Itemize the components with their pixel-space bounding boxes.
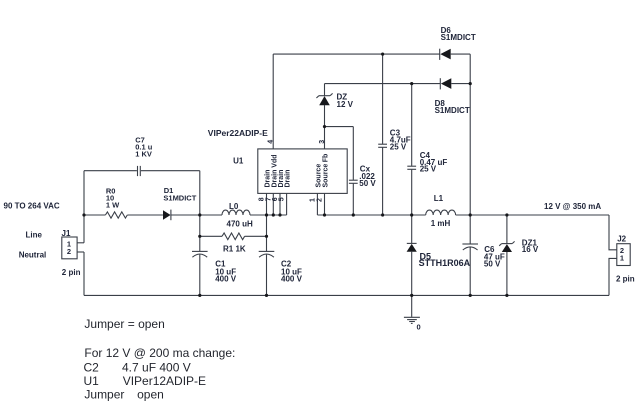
wire C3 upper bbox=[382, 54, 384, 144]
capacitor C6 bbox=[462, 244, 478, 250]
junction feedback node bbox=[323, 125, 326, 128]
wire Vdd second rail bbox=[325, 83, 441, 85]
svg-text:S1MDICT: S1MDICT bbox=[435, 106, 470, 115]
svg-text:Line: Line bbox=[26, 231, 43, 240]
svg-text:12 V: 12 V bbox=[337, 100, 354, 109]
wire R1 left segment bbox=[200, 235, 222, 237]
label C4 value bbox=[420, 151, 448, 174]
wire feedback node to Cx bbox=[325, 126, 354, 128]
svg-text:2: 2 bbox=[317, 198, 324, 202]
wire DZ1 to bottom rail bbox=[506, 252, 508, 295]
label C6 value bbox=[484, 245, 505, 269]
svg-text:1: 1 bbox=[309, 198, 316, 202]
capacitor C4 bbox=[407, 166, 416, 169]
wire R0 to D1 bbox=[127, 214, 163, 216]
svg-text:25 V: 25 V bbox=[420, 165, 437, 174]
wire neutral drop bbox=[83, 252, 85, 295]
svg-text:470 uH: 470 uH bbox=[227, 219, 253, 228]
wire C4 lower bbox=[411, 170, 413, 215]
wire L0 to drain pins bbox=[250, 214, 287, 216]
svg-text:J1: J1 bbox=[62, 229, 71, 238]
wire drain bus pin 8 / C2 branch bbox=[266, 193, 268, 251]
svg-text:Vdd: Vdd bbox=[271, 154, 278, 167]
label C7 value bbox=[135, 136, 153, 159]
capacitor Cx bbox=[349, 180, 358, 183]
svg-text:0: 0 bbox=[417, 323, 421, 332]
svg-text:2: 2 bbox=[67, 247, 71, 256]
note C2 change bbox=[84, 360, 191, 374]
svg-text:L0: L0 bbox=[229, 202, 239, 211]
junction DZ1 bottom bbox=[505, 294, 508, 297]
junction C3 top bbox=[381, 53, 384, 56]
svg-text:C2: C2 bbox=[84, 360, 100, 374]
junction pin 6 bbox=[278, 213, 281, 216]
junction Cx bottom bbox=[352, 213, 355, 216]
connector J1 bbox=[62, 237, 77, 259]
wire pin 4 Vdd riser bbox=[272, 54, 274, 149]
wire DZ top stub bbox=[324, 84, 326, 96]
wire line node to R0 bbox=[84, 214, 105, 216]
wire D5 top stub bbox=[411, 215, 413, 243]
junction C2 bottom bbox=[265, 294, 268, 297]
junction C6 bottom bbox=[469, 294, 472, 297]
svg-text:Source: Source bbox=[315, 164, 322, 188]
label DZ value bbox=[337, 93, 354, 109]
svg-text:25 V: 25 V bbox=[390, 142, 407, 151]
note jumper change bbox=[84, 387, 163, 401]
wire D1 to node B bbox=[171, 214, 200, 216]
svg-text:VIPer22ADIP-E: VIPer22ADIP-E bbox=[208, 128, 268, 138]
svg-text:Neutral: Neutral bbox=[19, 250, 47, 259]
resistor R0 bbox=[105, 212, 127, 218]
wire pin 5 bbox=[286, 193, 288, 215]
junction C4 D5 bbox=[410, 213, 413, 216]
label DZ1 value bbox=[522, 238, 539, 254]
inductor L0 bbox=[222, 210, 250, 215]
svg-text:Drain: Drain bbox=[285, 170, 292, 188]
svg-text:U1: U1 bbox=[233, 157, 244, 166]
junction D8 right rail bbox=[469, 82, 472, 85]
label D1 value bbox=[163, 186, 196, 202]
wire top rail to D6 bbox=[273, 53, 439, 55]
svg-text:STTH1R06A: STTH1R06A bbox=[419, 258, 471, 268]
junction line node C7 bbox=[82, 213, 85, 216]
svg-text:2 pin: 2 pin bbox=[62, 268, 81, 277]
svg-text:4.7 uF 400 V: 4.7 uF 400 V bbox=[122, 360, 191, 374]
zener diode DZ bbox=[316, 93, 332, 105]
capacitor C7 bbox=[138, 166, 141, 176]
svg-text:50 V: 50 V bbox=[359, 179, 376, 188]
junction C3 bottom bbox=[381, 213, 384, 216]
wire right rail upper bbox=[469, 54, 471, 244]
label Cx value bbox=[359, 164, 376, 188]
connector J2 bbox=[617, 244, 630, 266]
junction C1 bottom bbox=[198, 294, 201, 297]
zener diode DZ1 bbox=[499, 241, 514, 252]
wire D6 to right rail bbox=[451, 53, 471, 55]
wire C4 upper bbox=[411, 84, 413, 166]
label D5 value bbox=[419, 251, 471, 268]
wire node B to L0 bbox=[200, 214, 222, 216]
wire R1 right segment bbox=[245, 235, 267, 237]
wire pin 1 source bbox=[316, 193, 318, 215]
svg-text:S1MDICT: S1MDICT bbox=[441, 33, 476, 42]
svg-text:1 mH: 1 mH bbox=[431, 219, 451, 228]
wire Cx lower bbox=[352, 184, 354, 215]
svg-text:open: open bbox=[137, 387, 164, 401]
diode D6 bbox=[440, 49, 451, 60]
svg-text:400 V: 400 V bbox=[215, 275, 237, 284]
junction pin 7 bbox=[272, 213, 275, 216]
junction node B top bbox=[198, 213, 201, 216]
label R0 value bbox=[106, 187, 120, 210]
note U1 change bbox=[84, 374, 207, 388]
svg-text:1: 1 bbox=[620, 254, 624, 263]
svg-text:VIPer12ADIP-E: VIPer12ADIP-E bbox=[123, 374, 206, 388]
svg-text:12 V @ 350 mA: 12 V @ 350 mA bbox=[544, 202, 601, 211]
inductor L1 bbox=[426, 210, 456, 215]
svg-text:S1MDICT: S1MDICT bbox=[163, 193, 196, 202]
wire L1 to output bbox=[456, 214, 609, 216]
capacitor C1 bbox=[192, 251, 208, 257]
junction DZ1 top bbox=[505, 213, 508, 216]
capacitor C2 bbox=[259, 251, 275, 257]
wire node B to C1 and R1 bbox=[199, 215, 201, 251]
svg-text:Fb: Fb bbox=[323, 154, 330, 163]
svg-text:16 V: 16 V bbox=[522, 245, 539, 254]
wire pin 2 source bbox=[324, 193, 326, 215]
svg-text:Jumper: Jumper bbox=[84, 387, 124, 401]
wire J1 pin1 stub bbox=[77, 242, 84, 244]
label C1 value bbox=[215, 260, 237, 284]
label D6 value bbox=[441, 26, 476, 42]
op-amp U1 IC body bbox=[258, 149, 347, 194]
svg-text:1 KV: 1 KV bbox=[135, 150, 152, 159]
junction R1 right bbox=[265, 235, 268, 238]
wire source rail to L1 bbox=[317, 214, 425, 216]
ground bbox=[404, 295, 420, 323]
svg-text:3: 3 bbox=[319, 140, 326, 144]
wire C7 top left segment bbox=[84, 170, 137, 172]
svg-text:5: 5 bbox=[279, 197, 286, 201]
wire DZ to pin 3 bbox=[324, 105, 326, 149]
diode D5 bbox=[407, 243, 417, 251]
wire C7 left drop to line node bbox=[83, 171, 85, 243]
junction R1 left bbox=[198, 235, 201, 238]
diode D8 bbox=[440, 78, 451, 89]
svg-text:50 V: 50 V bbox=[484, 260, 501, 269]
svg-text:2 pin: 2 pin bbox=[616, 274, 635, 283]
wire D8 to right rail bbox=[451, 83, 470, 85]
wire return rise to J2 pin1 bbox=[609, 258, 617, 295]
junction ground node bbox=[410, 294, 413, 297]
svg-text:90 TO 264 VAC: 90 TO 264 VAC bbox=[4, 202, 60, 211]
junction output node bbox=[469, 213, 472, 216]
label D8 value bbox=[435, 99, 470, 115]
junction C4 top bbox=[410, 82, 413, 85]
label C3 value bbox=[390, 128, 411, 151]
junction pin 2 bbox=[323, 213, 326, 216]
wire pin 6 bbox=[279, 193, 281, 215]
svg-text:R1 1K: R1 1K bbox=[223, 245, 246, 254]
svg-text:U1: U1 bbox=[84, 374, 100, 388]
capacitor C3 bbox=[378, 144, 387, 147]
resistor R1 bbox=[222, 233, 245, 240]
wire C7 top right segment bbox=[141, 170, 200, 172]
wire C2 to bottom rail bbox=[266, 255, 268, 296]
wire C1 to bottom rail bbox=[199, 255, 201, 296]
svg-text:Source: Source bbox=[323, 164, 330, 188]
wire C3 lower bbox=[382, 148, 384, 215]
wire C7 right drop to rectified node bbox=[199, 171, 201, 215]
wire output drop to J2 pin2 bbox=[609, 215, 617, 250]
svg-text:J2: J2 bbox=[617, 234, 626, 243]
svg-text:For 12 V @ 200 ma change:: For 12 V @ 200 ma change: bbox=[84, 346, 235, 360]
wire J1 pin2 stub bbox=[77, 251, 84, 253]
svg-text:400 V: 400 V bbox=[281, 275, 303, 284]
diode D1 bbox=[163, 210, 171, 221]
svg-text:L1: L1 bbox=[434, 194, 444, 203]
svg-text:Jumper = open: Jumper = open bbox=[84, 317, 164, 331]
svg-text:1 W: 1 W bbox=[106, 200, 120, 209]
wire D5 to bottom rail bbox=[411, 252, 413, 296]
wire Cx upper bbox=[352, 127, 354, 180]
label C2 value bbox=[281, 260, 303, 284]
wire bottom rail bbox=[84, 294, 609, 296]
wire C6 to bottom rail bbox=[469, 247, 471, 295]
wire DZ1 top stub bbox=[506, 215, 508, 244]
svg-text:4: 4 bbox=[267, 140, 274, 144]
wire pin 7 bbox=[272, 193, 274, 215]
junction pin 8 bbox=[265, 213, 268, 216]
